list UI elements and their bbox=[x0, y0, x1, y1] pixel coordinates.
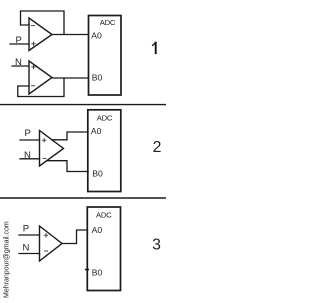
wire U4 output to ADC3 A0 bbox=[62, 230, 87, 244]
svg-text:2: 2 bbox=[153, 139, 162, 156]
wire U3 top edge to ADC2 A0 bbox=[52, 132, 88, 140]
svg-text:A0: A0 bbox=[91, 31, 102, 41]
svg-text:P: P bbox=[23, 224, 29, 235]
wire N to U3 - input bbox=[20, 158, 40, 160]
svg-text:B0: B0 bbox=[92, 267, 103, 277]
op-amp U3 bbox=[40, 131, 64, 167]
ADC block 3 bbox=[87, 207, 120, 291]
ADC block 2 bbox=[88, 110, 121, 192]
svg-text:A0: A0 bbox=[92, 225, 103, 235]
wire N to U4 - input bbox=[19, 253, 40, 255]
svg-text:B0: B0 bbox=[92, 73, 103, 83]
feedback wire U2 output to - input bbox=[18, 78, 64, 97]
svg-text:N: N bbox=[23, 243, 30, 254]
svg-text:3: 3 bbox=[152, 236, 161, 253]
pin stub B0 ADC3 bbox=[86, 269, 89, 271]
svg-text:Mehranpour@gmail.com: Mehranpour@gmail.com bbox=[4, 221, 11, 298]
op-amp U2 bbox=[29, 61, 52, 94]
wire N to U2 + input bbox=[12, 65, 29, 67]
svg-text:A0: A0 bbox=[91, 126, 102, 136]
wire P to U1 + input bbox=[10, 43, 29, 45]
svg-text:B0: B0 bbox=[92, 169, 103, 179]
separator line 2 bbox=[0, 197, 166, 199]
svg-text:ADC: ADC bbox=[96, 211, 112, 220]
ADC block 1 bbox=[89, 16, 122, 96]
wire P to U4 + input bbox=[19, 234, 40, 236]
svg-text:ADC: ADC bbox=[97, 113, 113, 122]
wire U2 output to ADC1 B0 bbox=[52, 77, 89, 79]
feedback wire U1 output to - input bbox=[21, 11, 65, 35]
wire U3 bottom edge to ADC2 B0 bbox=[47, 161, 88, 172]
op-amp U4 bbox=[40, 226, 63, 261]
svg-text:P: P bbox=[25, 128, 31, 139]
wire P to U3 + input bbox=[20, 139, 40, 141]
separator line 1 bbox=[0, 104, 166, 106]
figure number 1 bbox=[155, 43, 157, 54]
svg-text:ADC: ADC bbox=[100, 18, 116, 27]
op-amp U1 bbox=[29, 18, 52, 51]
wire U1 output to ADC1 A0 bbox=[52, 34, 89, 36]
